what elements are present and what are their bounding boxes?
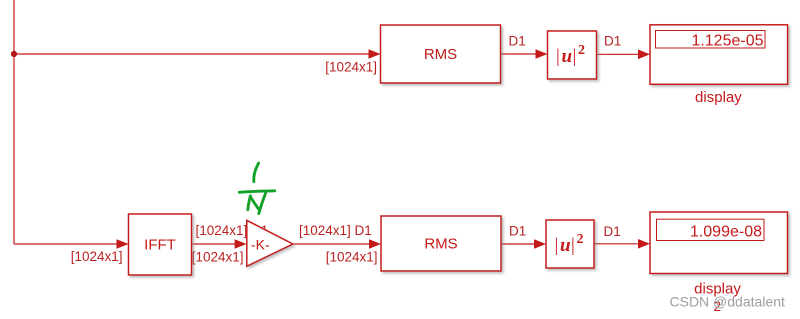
svg-text:[1024x1]: [1024x1] xyxy=(325,59,377,74)
svg-text:D1: D1 xyxy=(509,223,526,238)
svg-text:|: | xyxy=(573,46,577,67)
svg-text:CSDN @ddatalent: CSDN @ddatalent xyxy=(670,293,785,309)
svg-text:[1024x1] D1: [1024x1] D1 xyxy=(299,223,372,238)
svg-text:|: | xyxy=(556,46,560,67)
svg-text:[1024x1]: [1024x1] xyxy=(192,250,244,265)
svg-text:2: 2 xyxy=(578,43,585,58)
svg-text:RMS: RMS xyxy=(424,236,457,253)
svg-text:2: 2 xyxy=(577,232,584,247)
svg-text:-K-: -K- xyxy=(251,237,270,253)
svg-text:1.099e-08: 1.099e-08 xyxy=(690,224,762,241)
svg-text:u: u xyxy=(560,235,571,256)
svg-text:[1024x1]: [1024x1] xyxy=(326,250,378,265)
svg-text:|: | xyxy=(571,235,575,256)
svg-text:D1: D1 xyxy=(509,33,526,48)
svg-text:RMS: RMS xyxy=(424,46,457,63)
svg-text:D1: D1 xyxy=(604,224,621,239)
svg-text:display: display xyxy=(695,89,742,106)
svg-text:u: u xyxy=(562,46,573,67)
svg-text:|: | xyxy=(555,235,559,256)
svg-text:IFFT: IFFT xyxy=(144,237,176,254)
svg-text:1.125e-05: 1.125e-05 xyxy=(691,33,763,50)
svg-text:[1024x1]: [1024x1] xyxy=(71,249,123,264)
svg-text:D1: D1 xyxy=(604,33,621,48)
